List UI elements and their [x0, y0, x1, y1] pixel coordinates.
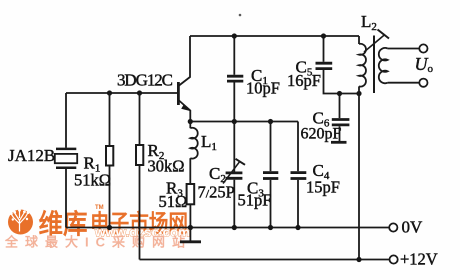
terminal +12V	[390, 255, 398, 263]
node R2-base junction	[137, 90, 142, 95]
emitter node wire	[190, 121, 298, 123]
capacitor C1	[227, 36, 243, 122]
terminal Uo bottom	[419, 79, 427, 87]
svg-text:+12V: +12V	[400, 250, 438, 269]
svg-text:U: U	[415, 54, 429, 74]
svg-text:30kΩ: 30kΩ	[148, 157, 185, 176]
node tank bottom junction	[356, 91, 361, 96]
inductor L2 primary	[359, 36, 366, 260]
resistor R3	[187, 184, 195, 228]
base wire	[66, 92, 178, 94]
+12V rail	[140, 259, 390, 261]
resistor R2	[136, 93, 143, 260]
node C1/C2 emitter junction	[232, 119, 237, 124]
node C5 top rail junction	[321, 33, 326, 38]
node tank/+12V junction	[356, 257, 361, 262]
scan speck	[239, 14, 242, 17]
ground below R3	[180, 228, 201, 242]
svg-text:51Ω: 51Ω	[159, 192, 188, 211]
capacitor C4	[291, 122, 307, 228]
node C1 top rail junction	[232, 33, 237, 38]
svg-text:15pF: 15pF	[306, 178, 340, 197]
svg-text:51kΩ: 51kΩ	[74, 171, 111, 190]
svg-text:620pF: 620pF	[301, 126, 342, 143]
inductor L1	[190, 122, 197, 185]
svg-text:L1: L1	[201, 132, 217, 153]
capacitor C3	[263, 122, 278, 228]
node C4 bottom junction	[295, 225, 300, 230]
0V rail	[66, 227, 389, 229]
node C3 emitter junction	[268, 119, 273, 124]
capacitor C2 (trimmer)	[223, 122, 245, 228]
svg-text:JA12B: JA12B	[8, 146, 55, 165]
svg-text:0V: 0V	[402, 218, 424, 237]
node C6 tap junction	[337, 91, 342, 96]
node emitter junction	[188, 119, 193, 124]
capacitor C5	[316, 36, 360, 94]
node R1 bottom junction	[107, 225, 112, 230]
svg-text:o: o	[428, 63, 434, 75]
svg-text:L2: L2	[361, 12, 377, 33]
tuning arrow L2	[364, 30, 389, 53]
inductor L2 secondary	[379, 48, 419, 83]
terminal 0V	[389, 223, 397, 231]
svg-text:全球最大IC采购网站: 全球最大IC采购网站	[4, 235, 192, 250]
node C2 bottom junction	[232, 225, 237, 230]
node R3 bottom junction	[188, 225, 193, 230]
resistor R1	[106, 93, 113, 228]
node R1-base junction	[107, 90, 112, 95]
svg-text:16pF: 16pF	[287, 71, 321, 90]
svg-text:7/25P: 7/25P	[198, 183, 235, 202]
svg-text:10pF: 10pF	[246, 79, 280, 98]
transformer core	[373, 36, 375, 94]
transistor Q1 3DG12C	[178, 36, 191, 122]
crystal JA12B	[55, 93, 77, 228]
top rail (collector node)	[190, 35, 359, 37]
capacitor C6	[331, 94, 349, 143]
node C3 bottom junction	[268, 225, 273, 230]
svg-text:3DG12C: 3DG12C	[117, 71, 173, 90]
terminal Uo top	[419, 44, 427, 52]
svg-text:51pF: 51pF	[238, 191, 272, 210]
watermark logo circle	[8, 209, 33, 235]
